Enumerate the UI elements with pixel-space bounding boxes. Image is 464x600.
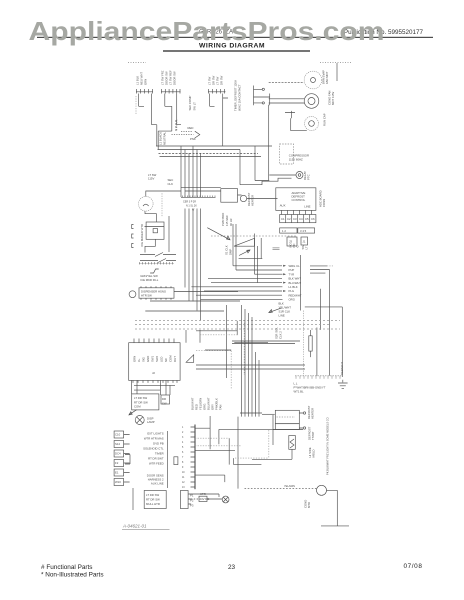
svg-text:DOOR SW: DOOR SW xyxy=(173,71,177,85)
svg-text:LINE: LINE xyxy=(279,314,285,318)
svg-text:CONTROL: CONTROL xyxy=(292,198,306,202)
svg-text:ICE MAKER WTR: ICE MAKER WTR xyxy=(140,224,144,247)
svg-text:NC: NC xyxy=(164,358,168,362)
svg-text:CLK: CLK xyxy=(168,182,174,186)
svg-text:COM: COM xyxy=(134,405,141,409)
svg-text:1 2: 1 2 xyxy=(282,229,286,233)
svg-text:J3: J3 xyxy=(289,240,292,244)
svg-text:LT DR SW: LT DR SW xyxy=(134,396,147,400)
svg-text:HEATER: HEATER xyxy=(311,408,315,419)
svg-text:SEC COMP: SEC COMP xyxy=(188,95,192,110)
svg-text:LT DR SW: LT DR SW xyxy=(146,493,159,497)
svg-text:P3: P3 xyxy=(190,504,194,508)
svg-text:C5: C5 xyxy=(305,217,309,221)
svg-text:AUX: AUX xyxy=(280,203,286,207)
svg-text:DR: DR xyxy=(162,397,166,401)
svg-text:WT1 BL: WT1 BL xyxy=(294,390,305,394)
svg-text:C4: C4 xyxy=(299,217,303,221)
svg-text:SW1: SW1 xyxy=(151,355,155,362)
svg-text:ICE MKR FILL: ICE MKR FILL xyxy=(140,278,158,282)
svg-text:S14: S14 xyxy=(115,442,120,446)
svg-text:TAN: TAN xyxy=(219,405,223,410)
svg-text:10: 10 xyxy=(182,472,185,474)
svg-text:13: 13 xyxy=(182,487,185,489)
svg-text:AUX LINE: AUX LINE xyxy=(151,482,164,486)
svg-text:115V 60HZ: 115V 60HZ xyxy=(289,158,303,162)
svg-text:07/08: 07/08 xyxy=(404,563,423,570)
svg-text:OUT: OUT xyxy=(173,356,177,362)
svg-text:60 HZ: 60 HZ xyxy=(229,218,233,226)
svg-text:SW: SW xyxy=(162,402,167,406)
svg-text:4: 4 xyxy=(182,442,184,444)
svg-text:FAN MOT: FAN MOT xyxy=(325,71,329,84)
svg-text:60HZ 10A CONTACT: 60HZ 10A CONTACT xyxy=(237,84,241,111)
svg-text:DR SW: DR SW xyxy=(220,75,224,85)
svg-text:F2: F2 xyxy=(115,461,119,465)
svg-text:MTR: MTR xyxy=(307,502,311,508)
svg-text:12: 12 xyxy=(182,482,185,484)
svg-text:RED/WHT: RED/WHT xyxy=(340,362,344,375)
svg-text:DMP: DMP xyxy=(229,249,233,255)
svg-text:AppliancePartsPros.com: AppliancePartsPros.com xyxy=(29,16,385,46)
svg-text:HEATER: HEATER xyxy=(251,195,255,206)
svg-text:C6: C6 xyxy=(311,217,315,221)
svg-text:LAMP: LAMP xyxy=(147,420,155,424)
svg-text:P2: P2 xyxy=(190,499,194,503)
svg-text:HTR 5W: HTR 5W xyxy=(141,294,152,298)
svg-text:RUN CAP: RUN CAP xyxy=(323,113,327,126)
svg-text:SIG: SIG xyxy=(142,357,146,362)
svg-text:P1: P1 xyxy=(190,494,194,498)
svg-text:TIMER: TIMER xyxy=(155,452,164,456)
svg-text:RT DR SW: RT DR SW xyxy=(146,498,160,502)
svg-text:C3: C3 xyxy=(293,217,297,221)
svg-text:V+: V+ xyxy=(137,358,141,362)
svg-text:DC4: DC4 xyxy=(115,452,121,456)
svg-text:SOLENOID CTL: SOLENOID CTL xyxy=(143,447,164,451)
svg-text:C: C xyxy=(296,245,300,247)
svg-text:24V DC: 24V DC xyxy=(200,497,210,501)
svg-text:1: 1 xyxy=(182,427,184,429)
svg-text:PNK: PNK xyxy=(190,137,196,141)
svg-text:2: 2 xyxy=(182,432,184,434)
svg-text:WTR HTR MAS: WTR HTR MAS xyxy=(144,437,164,441)
svg-text:EXT LIGHTS: EXT LIGHTS xyxy=(147,432,163,436)
svg-text:W: W xyxy=(192,209,195,212)
svg-text:RED: RED xyxy=(188,126,194,130)
svg-text:7: 7 xyxy=(182,457,184,459)
svg-text:E1: E1 xyxy=(115,471,119,475)
svg-text:W10: W10 xyxy=(115,480,121,484)
svg-text:C2: C2 xyxy=(287,217,291,221)
svg-text:C10: C10 xyxy=(115,433,121,437)
svg-text:GND: GND xyxy=(146,356,150,362)
svg-text:LED: LED xyxy=(160,357,164,362)
svg-text:5: 5 xyxy=(182,447,184,449)
svg-text:115V: 115V xyxy=(148,177,154,181)
svg-text:TSTAT: TSTAT xyxy=(311,431,315,440)
svg-text:NEUTRAL: NEUTRAL xyxy=(163,132,167,145)
svg-text:N 1 SL 2K: N 1 SL 2K xyxy=(186,205,197,208)
svg-text:CONN: CONN xyxy=(322,199,326,207)
svg-text:CER 3 P 2R: CER 3 P 2R xyxy=(183,201,196,204)
svg-text:8: 8 xyxy=(182,462,184,464)
svg-text:DVD PB: DVD PB xyxy=(153,442,164,446)
svg-text:YEL/GRN: YEL/GRN xyxy=(284,485,295,488)
svg-text:COM: COM xyxy=(169,355,173,362)
svg-text:6: 6 xyxy=(182,452,184,454)
svg-text:A-04621-01: A-04621-01 xyxy=(122,524,147,529)
svg-text:PK BLK/WHT FRZ LIGHT IN SOME M: PK BLK/WHT FRZ LIGHT IN SOME MODELS CO xyxy=(326,417,330,475)
svg-text:9: 9 xyxy=(182,467,184,469)
svg-text:GRN: GRN xyxy=(144,79,148,85)
svg-text:HTR: HTR xyxy=(200,492,206,496)
svg-text:ORG: ORG xyxy=(289,298,295,302)
svg-text:* Non-Illustrated Parts: * Non-Illustrated Parts xyxy=(41,571,104,578)
svg-text:11: 11 xyxy=(182,477,185,479)
svg-text:LT: LT xyxy=(305,246,309,249)
svg-text:PTC: PTC xyxy=(307,174,311,180)
svg-text:WTR FEED: WTR FEED xyxy=(149,462,164,466)
svg-text:MULL HTR: MULL HTR xyxy=(146,502,160,506)
svg-text:3: 3 xyxy=(182,437,184,439)
svg-text:SW LT: SW LT xyxy=(193,102,197,111)
svg-text:GRN: GRN xyxy=(133,356,137,362)
svg-text:# Functional Parts: # Functional Parts xyxy=(41,564,93,571)
svg-text:J1: J1 xyxy=(303,240,306,244)
svg-text:SW2: SW2 xyxy=(155,355,159,362)
svg-text:CLK 2: CLK 2 xyxy=(279,331,283,339)
svg-text:C1: C1 xyxy=(281,217,285,221)
svg-text:J2: J2 xyxy=(152,371,155,375)
svg-text:MOLD: MOLD xyxy=(312,449,316,457)
svg-text:3 4 5: 3 4 5 xyxy=(300,229,307,233)
svg-text:23: 23 xyxy=(228,564,236,571)
svg-text:LINE: LINE xyxy=(304,205,310,209)
svg-text:MOT 115V: MOT 115V xyxy=(331,92,335,105)
svg-text:RT DR SWT: RT DR SWT xyxy=(148,457,164,461)
